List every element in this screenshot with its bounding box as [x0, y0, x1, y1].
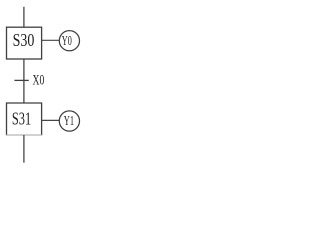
coil Y0: [59, 31, 79, 51]
step box S31 (left, top, right sides): [7, 103, 42, 135]
wire S30 to Y0: [42, 39, 60, 41]
svg-text:Y0: Y0: [62, 33, 72, 48]
wire bottom exit: [23, 135, 25, 163]
transition bar X0: [14, 79, 28, 81]
wire S31 to Y1: [42, 119, 60, 121]
svg-text:Y1: Y1: [64, 113, 74, 128]
wire S30 to S31: [23, 59, 25, 103]
step box S31 bottom side (faded in scan): [6, 134, 42, 136]
coil Y1: [59, 111, 79, 131]
svg-text:X0: X0: [33, 72, 45, 89]
wire top entry: [23, 7, 25, 27]
svg-text:S31: S31: [12, 109, 31, 129]
step box S30: [7, 27, 42, 59]
svg-text:S30: S30: [13, 30, 35, 50]
